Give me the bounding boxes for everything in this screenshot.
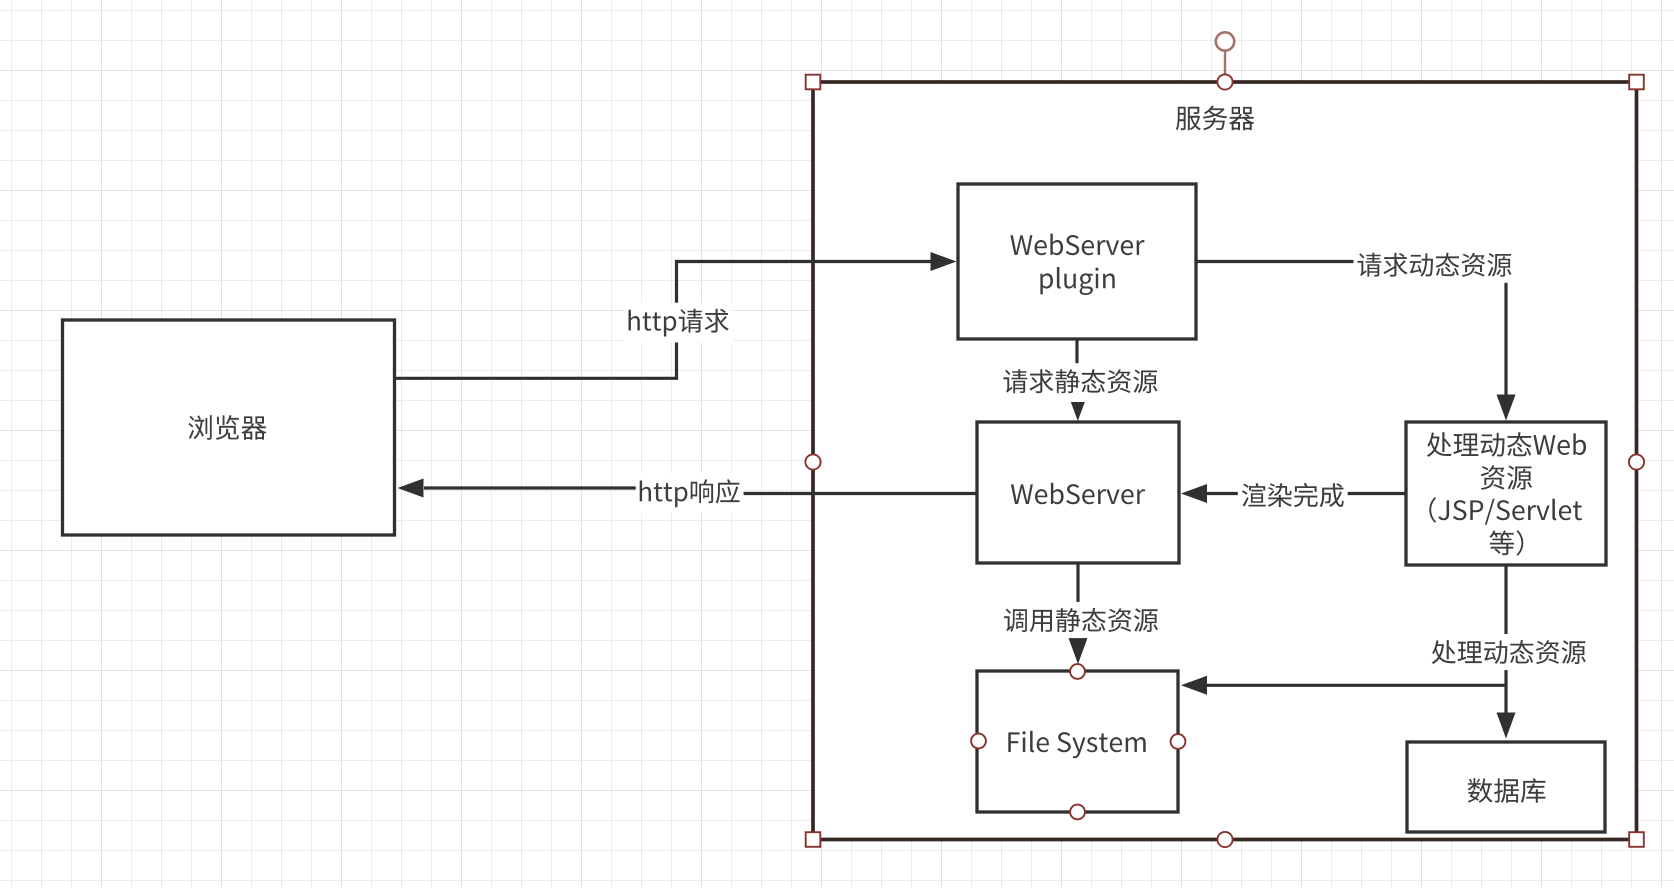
label WebServer plugin <box>1010 234 1144 295</box>
wire 调用静态资源: WebServer → File System <box>1069 563 1088 664</box>
label 调用静态资源 <box>1000 602 1162 638</box>
wire 渲染完成: 处理动态Web资源 → WebServer <box>1181 484 1406 503</box>
label http响应 <box>636 473 744 513</box>
label 服务器 <box>1176 106 1255 131</box>
connection point File System left <box>971 734 986 749</box>
connection point File System right <box>1171 734 1186 749</box>
box WebServer plugin <box>958 184 1196 339</box>
label 渲染完成 <box>1238 477 1348 513</box>
selection handle top-center <box>1217 74 1232 89</box>
connection point File System top <box>1070 664 1085 679</box>
selection handle top-right <box>1629 75 1644 90</box>
container box 服务器 (selected group) <box>813 82 1637 840</box>
label File System <box>1008 731 1145 759</box>
label WebServer <box>1011 483 1145 505</box>
rotation handle circle <box>1216 32 1234 50</box>
box WebServer <box>977 422 1179 563</box>
selection handle bottom-right <box>1629 832 1644 847</box>
box File System <box>977 671 1178 812</box>
label 处理动态Web资源(JSP/Servlet等) <box>1427 432 1586 555</box>
selection handle mid-right <box>1629 454 1644 469</box>
label 数据库 <box>1468 778 1546 803</box>
label 浏览器 <box>188 415 266 440</box>
wire http响应: WebServer → 浏览器 <box>398 479 978 498</box>
box 浏览器 <box>63 320 395 535</box>
selection handle bottom-center <box>1217 832 1232 847</box>
rotation handle stem <box>1224 51 1226 75</box>
connection point File System bottom <box>1070 805 1085 820</box>
label 请求动态资源 <box>1354 247 1516 283</box>
wire 处理动态资源: 处理动态Web资源 → 数据库 <box>1497 565 1516 739</box>
box 数据库 <box>1407 742 1605 832</box>
wire http请求: 浏览器 → WebServer plugin <box>395 252 957 378</box>
label 处理动态资源 <box>1428 634 1590 670</box>
wire branch: 处理动态资源 line → File System <box>1181 676 1506 695</box>
wire 请求静态资源: WebServer plugin → WebServer <box>1071 339 1085 421</box>
selection handle top-left <box>806 75 821 90</box>
box 处理动态Web资源(JSP/Servlet等) <box>1406 422 1606 565</box>
label http请求 <box>625 303 733 343</box>
selection handle mid-left <box>805 454 820 469</box>
wire 请求动态资源: WebServer plugin → 处理动态Web资源 <box>1196 262 1516 421</box>
label 请求静态资源 <box>999 363 1161 399</box>
selection handle bottom-left <box>806 832 821 847</box>
